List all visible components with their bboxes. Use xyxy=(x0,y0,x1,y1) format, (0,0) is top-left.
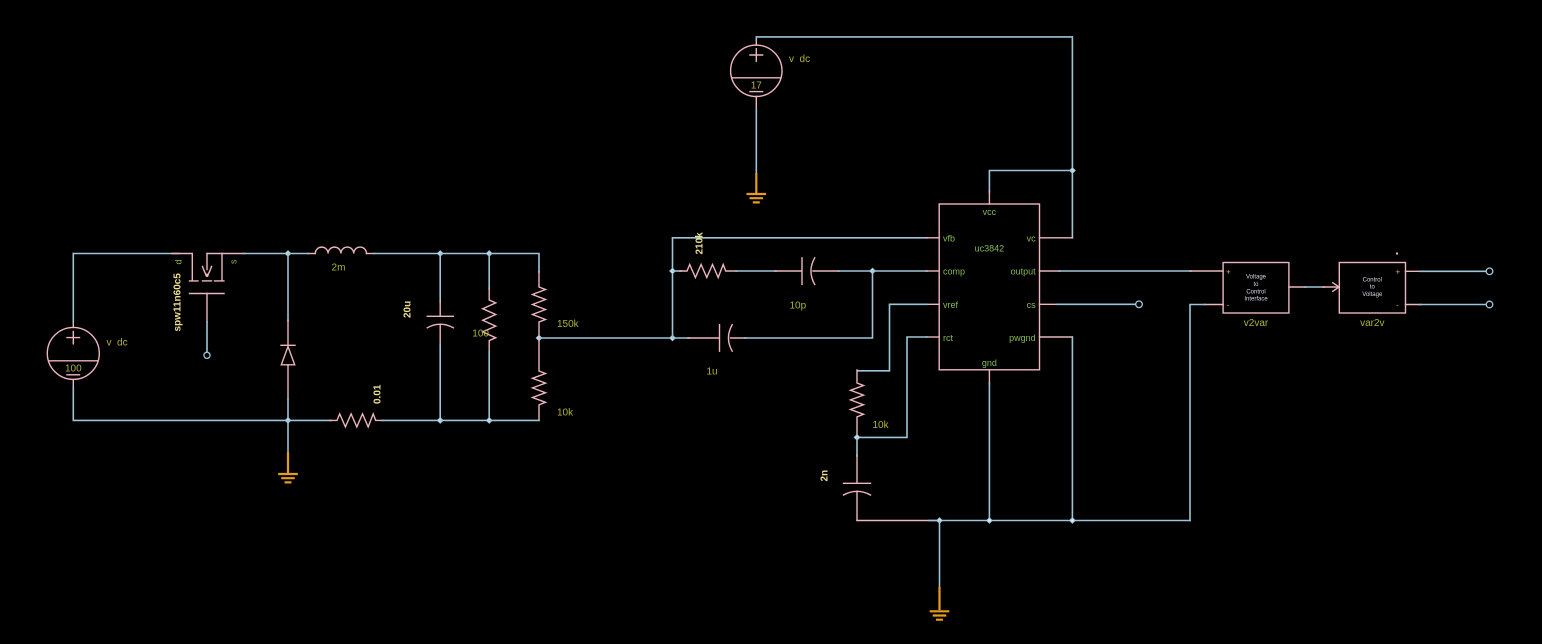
voltage source V1 (100V dc) xyxy=(47,322,99,387)
node divider junction xyxy=(536,335,542,341)
svg-text:2m: 2m xyxy=(332,262,346,273)
ground power stage xyxy=(278,452,298,482)
stray dot above var2v xyxy=(1396,253,1398,255)
resistor R5 comp xyxy=(673,265,777,278)
node ground rail junction 3 xyxy=(1070,518,1076,524)
node feedback left junction lower xyxy=(670,335,676,341)
node bottom rail cap junction xyxy=(437,418,443,424)
label var2v name xyxy=(1360,318,1384,329)
terminal gate circle xyxy=(204,352,210,358)
resistor R2 150k xyxy=(533,272,546,339)
svg-text:17: 17 xyxy=(751,80,763,91)
wire feedback left vertical xyxy=(672,238,674,338)
wire pwgnd to ground rail xyxy=(1040,337,1073,521)
terminal output plus circle xyxy=(1486,268,1493,275)
svg-text:vfb: vfb xyxy=(943,233,955,243)
voltage source V2 (17V dc) xyxy=(731,40,782,111)
inductor L1 2m xyxy=(308,247,375,253)
label v2var minus xyxy=(1227,301,1230,310)
pin vref xyxy=(943,300,959,310)
wire top rail to divider corner xyxy=(489,254,539,273)
svg-text:pwgnd: pwgnd xyxy=(1009,333,1036,343)
pin pwgnd xyxy=(1009,333,1036,343)
svg-text:150k: 150k xyxy=(557,319,580,330)
svg-text:210k: 210k xyxy=(695,232,706,255)
node bottom rail res junction xyxy=(486,418,492,424)
ground at V2 xyxy=(747,173,767,202)
label C1 20u xyxy=(403,301,414,318)
wire vcc link to pin xyxy=(989,171,1072,205)
svg-text:+: + xyxy=(1396,268,1401,277)
svg-text:rct: rct xyxy=(943,333,953,343)
svg-text:uc3842: uc3842 xyxy=(975,244,1005,254)
svg-text:var2v: var2v xyxy=(1360,318,1384,329)
node diode bottom junction xyxy=(285,418,291,424)
wire mosfet source to diode node xyxy=(244,253,288,255)
label var2v text xyxy=(1362,277,1383,298)
svg-text:-: - xyxy=(1227,301,1230,310)
svg-text:vref: vref xyxy=(943,300,959,310)
wire v2var minus to ground rail xyxy=(1190,305,1223,521)
wire vcc top rail xyxy=(756,37,1072,238)
resistor R6 10k timing xyxy=(851,370,864,437)
node ground rail junction 1 xyxy=(937,518,943,524)
node comp pin junction xyxy=(870,268,876,274)
capacitor C3 1u xyxy=(673,271,873,351)
svg-text:10k: 10k xyxy=(873,420,890,431)
pin output xyxy=(1011,267,1037,277)
svg-text:v dc: v dc xyxy=(107,338,128,349)
capacitor C1 20u xyxy=(427,254,453,421)
label mosfet d xyxy=(174,259,184,264)
svg-text:comp: comp xyxy=(943,267,965,277)
svg-text:Voltage: Voltage xyxy=(1362,292,1383,298)
wire bottom ground rail xyxy=(857,520,1190,522)
label v2var plus xyxy=(1226,268,1231,277)
svg-text:Interface: Interface xyxy=(1244,297,1268,303)
pin vfb xyxy=(943,233,955,243)
svg-text:v2var: v2var xyxy=(1244,318,1269,329)
label C4 2n rotated xyxy=(819,470,830,482)
svg-text:Control: Control xyxy=(1363,277,1382,283)
block v2var box xyxy=(1223,263,1289,314)
pin rct xyxy=(943,333,953,343)
capacitor C2 10p xyxy=(775,258,873,285)
wire vref to timing resistor xyxy=(858,304,939,371)
wire cs pin to terminal xyxy=(1040,303,1136,305)
node timing junction xyxy=(854,435,860,441)
wire V1 bottom to bottom rail xyxy=(73,387,288,421)
svg-text:2n: 2n xyxy=(819,470,830,482)
svg-text:1u: 1u xyxy=(707,367,718,378)
transistor Q1 mosfet spw11n60c3 xyxy=(172,254,245,323)
pin vcc xyxy=(983,207,997,217)
svg-text:Control: Control xyxy=(1246,289,1265,295)
wire V2 bottom to ground xyxy=(755,109,757,173)
label var2v plus xyxy=(1396,268,1401,277)
wire ground stem at diode xyxy=(287,420,289,452)
svg-text:v dc: v dc xyxy=(789,54,810,65)
wire vfb row xyxy=(673,237,940,239)
label v2var name xyxy=(1244,318,1269,329)
svg-text:s: s xyxy=(229,259,239,264)
pin cs xyxy=(1027,300,1037,310)
wire output pin to v2var xyxy=(1040,270,1224,272)
wire ground stem bottom xyxy=(939,521,941,588)
svg-text:cs: cs xyxy=(1027,300,1037,310)
wire V1 top to rail xyxy=(72,254,74,323)
node diode top junction xyxy=(285,251,291,257)
node res100 top junction xyxy=(486,251,492,257)
node feedback comp junction xyxy=(670,268,676,274)
wire bottom rail cap to res xyxy=(440,419,489,421)
block var2v box xyxy=(1339,263,1405,314)
ground signal xyxy=(930,587,950,620)
label R2 150k xyxy=(557,319,580,330)
label C2 10p xyxy=(790,301,807,312)
wire top rail to mosfet drain xyxy=(73,253,179,255)
wire bottom rail to divider xyxy=(489,419,539,421)
resistor R3 10k xyxy=(533,338,546,420)
wire top rail inductor segment xyxy=(288,253,440,255)
svg-text:d: d xyxy=(174,259,184,264)
wire var2v output plus xyxy=(1406,270,1487,272)
svg-text:Voltage: Voltage xyxy=(1246,275,1267,281)
svg-text:10k: 10k xyxy=(557,408,574,419)
wire gnd pin down xyxy=(988,370,990,521)
diode D1 freewheeling xyxy=(281,320,295,399)
wire comp junction to pin xyxy=(873,270,940,272)
wire diode branch upper xyxy=(287,254,289,322)
svg-text:+: + xyxy=(1226,268,1231,277)
wire var2v output minus xyxy=(1406,304,1487,306)
svg-text:20u: 20u xyxy=(403,301,414,318)
pin gnd xyxy=(982,358,997,368)
pin comp xyxy=(943,267,965,277)
svg-text:100: 100 xyxy=(472,328,489,339)
wire arrow v2var to var2v xyxy=(1289,283,1339,292)
pin vc xyxy=(1027,233,1037,243)
label mosfet s xyxy=(229,259,239,264)
label mosfet spw11n60c3 xyxy=(173,273,184,332)
svg-text:to: to xyxy=(1253,282,1259,288)
wire vc pin to rail xyxy=(1040,237,1073,239)
wire diode branch lower xyxy=(287,399,289,420)
label v2var text xyxy=(1244,275,1268,303)
label L1 2m xyxy=(332,262,346,273)
svg-text:to: to xyxy=(1370,285,1376,291)
svg-text:100: 100 xyxy=(65,363,82,374)
svg-text:spw11n60c5: spw11n60c5 xyxy=(173,273,184,332)
label R5 210k rotated xyxy=(695,232,706,255)
terminal output minus circle xyxy=(1486,301,1493,308)
node cap top junction xyxy=(437,251,443,257)
label V2 value 17 xyxy=(751,80,763,91)
label R6 10k xyxy=(873,420,890,431)
svg-text:gnd: gnd xyxy=(982,358,997,368)
label C3 1u xyxy=(707,367,718,378)
node vcc rail junction xyxy=(1070,168,1076,174)
wire rct to timing node xyxy=(857,337,939,437)
svg-text:0.01: 0.01 xyxy=(372,384,383,404)
label R4 0.01 xyxy=(372,384,383,404)
svg-text:10p: 10p xyxy=(790,301,807,312)
svg-text:output: output xyxy=(1011,267,1037,277)
label var2v minus xyxy=(1396,301,1399,310)
resistor R4 0.01 shunt xyxy=(288,414,440,427)
terminal cs circle xyxy=(1136,301,1143,308)
label R1 100 xyxy=(472,328,489,339)
resistor R1 100 xyxy=(483,254,496,421)
svg-text:-: - xyxy=(1396,301,1399,310)
label U1 uc3842 xyxy=(975,244,1005,254)
svg-text:vc: vc xyxy=(1027,233,1037,243)
wire top rail cap to res xyxy=(440,253,489,255)
op-amp U1 uc3842 box xyxy=(939,204,1039,370)
wire mosfet gate xyxy=(206,322,208,352)
svg-text:vcc: vcc xyxy=(983,207,997,217)
capacitor C4 2n timing xyxy=(844,437,871,520)
node ground rail junction 2 xyxy=(987,518,993,524)
label V1 value 100 xyxy=(65,363,82,374)
wire divider output row xyxy=(539,337,673,339)
label R3 10k xyxy=(557,408,574,419)
label V2 name v dc xyxy=(789,54,810,65)
label V1 name v dc xyxy=(107,338,128,349)
